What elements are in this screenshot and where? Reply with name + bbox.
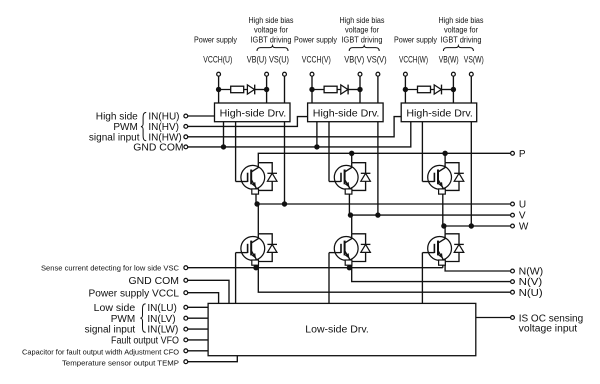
- svg-text:Low side: Low side: [94, 303, 136, 314]
- svg-text:PWM: PWM: [111, 314, 135, 325]
- svg-text:High side: High side: [96, 112, 138, 123]
- svg-text:PWM: PWM: [113, 122, 137, 133]
- svg-text:IN(LW): IN(LW): [147, 325, 178, 336]
- svg-text:N(U): N(U): [519, 288, 543, 299]
- svg-text:VCCH(W): VCCH(W): [399, 55, 428, 65]
- svg-text:High-side Drv.: High-side Drv.: [313, 108, 380, 119]
- svg-text:VS(W): VS(W): [464, 55, 484, 65]
- svg-text:VB(V): VB(V): [344, 55, 364, 65]
- svg-text:N(V): N(V): [519, 277, 543, 288]
- svg-text:IN(LV): IN(LV): [147, 314, 175, 325]
- svg-text:Sense current detecting for lo: Sense current detecting for low side VSC: [41, 263, 180, 272]
- svg-text:Fault output VFO: Fault output VFO: [111, 336, 179, 347]
- svg-text:High side bias: High side bias: [249, 16, 294, 25]
- svg-text:Power supply VCCL: Power supply VCCL: [89, 288, 180, 299]
- svg-text:High side bias: High side bias: [439, 16, 484, 25]
- svg-text:Capacitor for fault output wid: Capacitor for fault output width Adjustm…: [22, 347, 179, 356]
- svg-text:VCCH(U): VCCH(U): [203, 55, 232, 65]
- svg-text:VB(W): VB(W): [439, 55, 459, 65]
- svg-text:V: V: [519, 211, 526, 222]
- svg-text:signal input: signal input: [85, 325, 136, 336]
- svg-text:voltage for: voltage for: [444, 26, 478, 35]
- svg-text:VCCH(V): VCCH(V): [302, 55, 331, 65]
- svg-text:High-side Drv.: High-side Drv.: [220, 108, 287, 119]
- svg-text:W: W: [519, 222, 529, 233]
- svg-text:Temperature sensor output TEMP: Temperature sensor output TEMP: [62, 358, 179, 367]
- svg-text:IN(HV): IN(HV): [148, 122, 179, 133]
- svg-text:Power supply: Power supply: [394, 35, 437, 44]
- svg-text:VS(U): VS(U): [269, 55, 289, 65]
- svg-text:IGBT driving: IGBT driving: [441, 35, 482, 44]
- svg-text:GND COM: GND COM: [133, 143, 183, 154]
- svg-text:VB(U): VB(U): [247, 55, 267, 65]
- svg-text:IN(LU): IN(LU): [147, 303, 176, 314]
- svg-text:Low-side Drv.: Low-side Drv.: [305, 325, 369, 336]
- svg-text:Power supply: Power supply: [194, 35, 237, 44]
- svg-text:P: P: [519, 149, 526, 160]
- svg-text:IGBT driving: IGBT driving: [251, 35, 292, 44]
- svg-text:GND COM: GND COM: [129, 276, 180, 287]
- svg-text:U: U: [519, 200, 526, 211]
- svg-text:signal input: signal input: [89, 132, 140, 143]
- svg-text:N(W): N(W): [519, 267, 544, 278]
- svg-text:High side bias: High side bias: [340, 16, 385, 25]
- svg-text:voltage input: voltage input: [519, 323, 578, 334]
- svg-text:VS(V): VS(V): [367, 55, 387, 65]
- svg-text:Power supply: Power supply: [294, 35, 337, 44]
- svg-text:IGBT driving: IGBT driving: [342, 35, 383, 44]
- svg-text:voltage for: voltage for: [254, 26, 288, 35]
- svg-text:voltage for: voltage for: [345, 26, 379, 35]
- svg-text:IN(HU): IN(HU): [148, 112, 179, 123]
- svg-text:High-side Drv.: High-side Drv.: [406, 108, 473, 119]
